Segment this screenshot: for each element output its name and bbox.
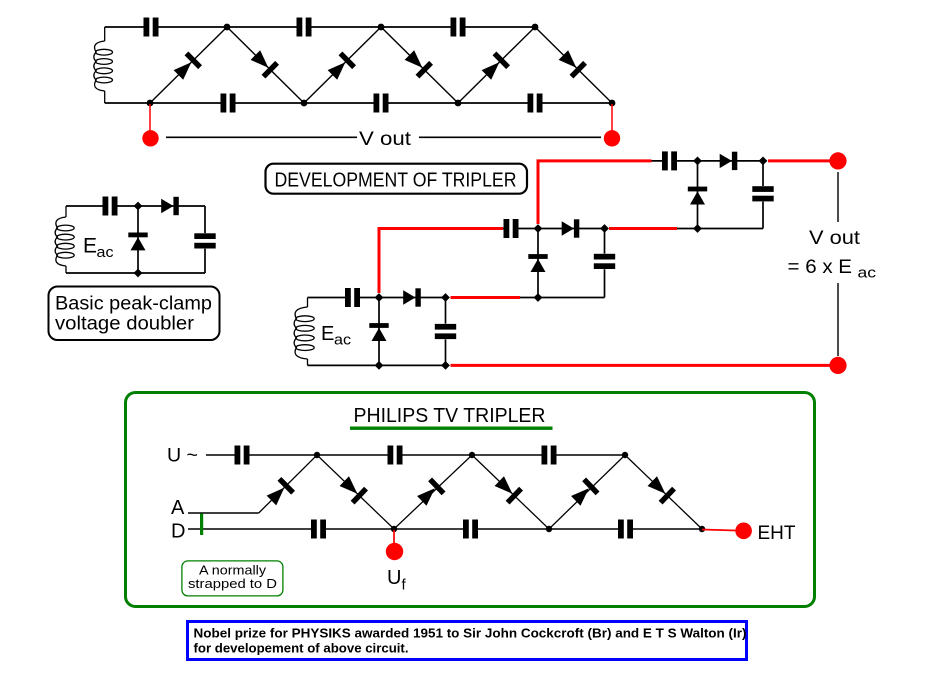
svg-text:A: A — [171, 497, 185, 519]
svg-text:ac: ac — [334, 332, 352, 349]
svg-text:E: E — [321, 323, 334, 345]
svg-text:ac: ac — [858, 265, 877, 282]
svg-text:for developement of above circ: for developement of above circuit. — [194, 642, 409, 656]
svg-text:strapped to D: strapped to D — [188, 577, 277, 591]
svg-text:PHILIPS TV TRIPLER: PHILIPS TV TRIPLER — [354, 405, 546, 427]
svg-text:U ~: U ~ — [167, 446, 198, 467]
svg-text:Nobel prize for PHYSIKS awarde: Nobel prize for PHYSIKS awarded 1951 to … — [194, 627, 747, 641]
svg-text:ac: ac — [97, 244, 115, 261]
svg-text:voltage doubler: voltage doubler — [55, 314, 195, 335]
svg-text:V out: V out — [359, 129, 412, 150]
svg-text:EHT: EHT — [758, 523, 796, 544]
svg-text:V out: V out — [809, 228, 861, 249]
svg-text:E: E — [83, 235, 97, 258]
svg-text:Basic peak-clamp: Basic peak-clamp — [55, 294, 212, 315]
svg-text:D: D — [171, 521, 185, 543]
svg-text:DEVELOPMENT OF TRIPLER: DEVELOPMENT OF TRIPLER — [275, 170, 517, 192]
svg-text:U: U — [387, 567, 401, 589]
svg-text:= 6 x E: = 6 x E — [788, 257, 853, 278]
svg-text:A normally: A normally — [199, 564, 267, 578]
